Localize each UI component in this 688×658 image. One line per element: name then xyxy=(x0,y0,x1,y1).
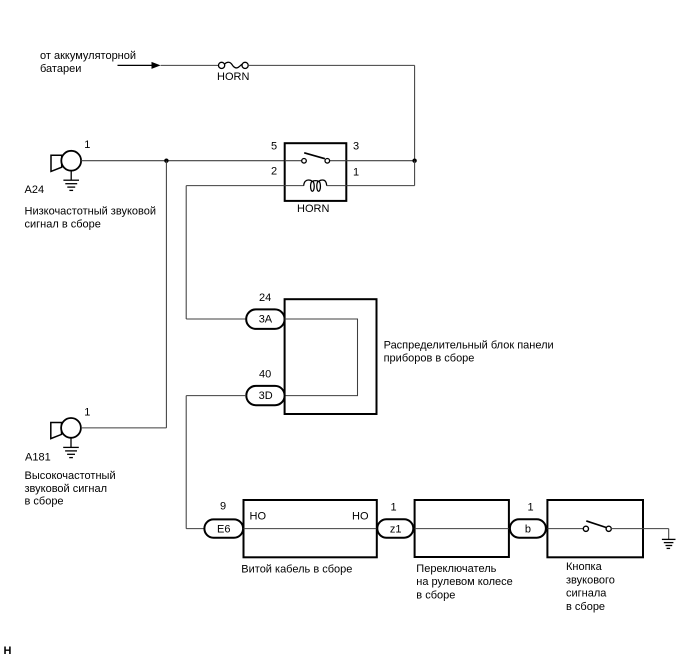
svg-text:на рулевом колесе: на рулевом колесе xyxy=(416,576,512,588)
svg-text:1: 1 xyxy=(391,502,397,514)
wire: fuse to relay pin 3 drop xyxy=(248,65,414,160)
svg-text:Переключатель: Переключатель xyxy=(416,563,496,575)
svg-text:в сборе: в сборе xyxy=(566,601,605,613)
wire through switch box xyxy=(415,528,509,530)
svg-text:1: 1 xyxy=(84,139,90,151)
svg-text:сигнал в сборе: сигнал в сборе xyxy=(25,218,101,230)
svg-text:1: 1 xyxy=(84,406,90,418)
svg-text:Высокочастотный: Высокочастотный xyxy=(25,470,116,482)
ground (right) xyxy=(662,539,676,548)
svg-text:3A: 3A xyxy=(259,314,273,326)
ground (A24) xyxy=(63,171,79,191)
connector b xyxy=(510,519,546,538)
svg-text:Витой кабель в сборе: Витой кабель в сборе xyxy=(241,564,352,576)
svg-text:в сборе: в сборе xyxy=(416,590,455,602)
svg-text:HORN: HORN xyxy=(217,71,249,83)
svg-text:A24: A24 xyxy=(25,184,45,196)
relay switch contact wires xyxy=(285,160,347,162)
relay pin labels xyxy=(271,141,359,179)
svg-text:1: 1 xyxy=(353,167,359,179)
svg-text:3: 3 xyxy=(353,141,359,153)
wire: horn button to ground xyxy=(643,529,669,540)
wire: relay pin 2 to connector 3A xyxy=(186,186,285,319)
wire: A181 to branch xyxy=(81,427,166,429)
internal link 3A to 3D xyxy=(285,319,358,396)
svg-text:сигнала: сигнала xyxy=(566,588,607,600)
connector z1 xyxy=(377,519,413,538)
svg-text:HO: HO xyxy=(352,511,369,523)
wire: battery feed with arrow xyxy=(118,62,219,69)
svg-text:3D: 3D xyxy=(259,390,273,402)
junction dot at A24 branch xyxy=(164,159,168,163)
svg-text:приборов в сборе: приборов в сборе xyxy=(384,352,475,364)
svg-text:E6: E6 xyxy=(217,524,230,536)
svg-text:Распределительный блок панели: Распределительный блок панели xyxy=(384,339,554,351)
junction block box xyxy=(285,299,377,414)
label: junction block xyxy=(384,339,554,364)
svg-text:b: b xyxy=(525,524,531,536)
svg-text:2: 2 xyxy=(271,165,277,177)
steering wheel switch box xyxy=(415,500,509,557)
junction dot relay feed xyxy=(412,159,416,163)
horn A24 symbol xyxy=(51,151,81,172)
svg-text:HO: HO xyxy=(250,511,267,523)
ground (A181) xyxy=(63,438,79,458)
svg-text:24: 24 xyxy=(259,292,271,304)
svg-text:Кнопка: Кнопка xyxy=(566,561,603,573)
node: from battery label xyxy=(40,50,136,75)
connector 3A xyxy=(246,309,284,329)
svg-text:H: H xyxy=(4,645,12,657)
connector E6 xyxy=(204,519,243,537)
wire: relay pin 3 to junction xyxy=(346,160,414,162)
svg-text:звукового: звукового xyxy=(566,574,615,586)
wire through spiral cable xyxy=(244,528,378,530)
svg-text:Низкочастотный звуковой: Низкочастотный звуковой xyxy=(25,206,156,218)
label: steering wheel switch xyxy=(416,563,512,602)
pin HO labels xyxy=(250,511,369,523)
svg-text:в сборе: в сборе xyxy=(25,496,64,508)
svg-text:от аккумуляторной: от аккумуляторной xyxy=(40,50,136,62)
spiral cable box xyxy=(244,500,377,557)
connector 3D xyxy=(246,386,284,405)
fuse HORN xyxy=(217,62,249,83)
svg-text:z1: z1 xyxy=(390,524,402,536)
label: low pitched horn assembly xyxy=(25,206,156,231)
wire: A24 to relay pin 5 xyxy=(81,160,285,162)
svg-text:9: 9 xyxy=(220,501,226,513)
svg-text:HORN: HORN xyxy=(297,203,329,215)
wire: vertical branch to A181 xyxy=(165,161,167,428)
svg-text:A181: A181 xyxy=(25,452,51,464)
relay switch contacts xyxy=(302,153,330,163)
label: high pitched horn assembly xyxy=(25,470,116,508)
svg-text:5: 5 xyxy=(271,141,277,153)
label: horn button xyxy=(566,561,615,613)
horn button switch xyxy=(547,521,643,532)
wire: relay pin 1 loop to junction xyxy=(346,161,414,186)
svg-text:40: 40 xyxy=(259,368,271,380)
relay HORN box xyxy=(285,143,347,201)
svg-text:батареи: батареи xyxy=(40,63,81,75)
wire: 3D to E6 xyxy=(186,396,246,529)
svg-text:1: 1 xyxy=(528,502,534,514)
horn button box xyxy=(547,500,643,557)
svg-text:звуковой сигнал: звуковой сигнал xyxy=(25,483,108,495)
relay coil xyxy=(285,180,347,191)
horn A181 symbol xyxy=(51,418,81,439)
